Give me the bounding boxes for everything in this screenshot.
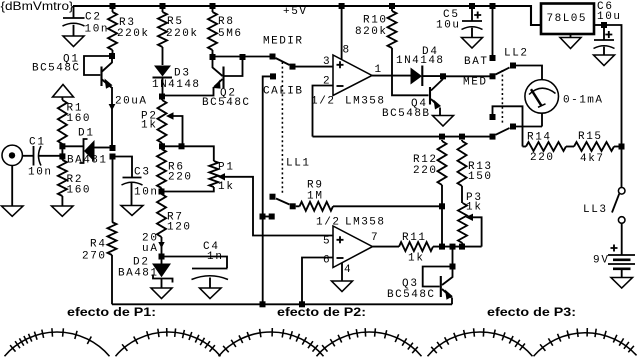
wire MED to LL2: [446, 75, 490, 77]
wire bottom return bus: [112, 303, 452, 305]
svg-text:LM358: LM358: [345, 96, 384, 108]
battery B1 9V: [608, 223, 635, 277]
battery plus mark: [611, 245, 618, 252]
ground 78L05: [560, 38, 581, 49]
svg-text:R14: R14: [527, 132, 550, 144]
wire feedback bus: [313, 136, 490, 138]
wire to LL3: [621, 150, 623, 188]
svg-text:LM358: LM358: [345, 217, 384, 229]
node out bus Q3: [450, 244, 456, 250]
node C3 branch: [110, 145, 116, 151]
potentiometer P3: [458, 203, 467, 243]
node C6: [601, 22, 607, 28]
ground pin4: [332, 281, 353, 292]
svg-text:R10: R10: [363, 15, 386, 27]
svg-text:7: 7: [371, 232, 378, 244]
U1B minus input mark: [337, 257, 344, 259]
ground C2: [63, 36, 84, 47]
svg-text:R11: R11: [402, 232, 425, 244]
resistor R15: [574, 142, 614, 151]
resistor R7: [157, 194, 166, 237]
resistor R10: [391, 6, 393, 11]
svg-text:1n: 1n: [207, 251, 222, 263]
svg-text:1k: 1k: [466, 202, 481, 214]
node D2 C4 junction: [159, 254, 165, 260]
op-amp U1A LM358: [313, 6, 411, 137]
switch LL1 pole A (MEDIR): [270, 54, 333, 70]
potentiometer P2: [161, 100, 163, 147]
resistor R11: [399, 242, 433, 251]
svg-text:BC548C: BC548C: [387, 289, 434, 301]
transistor Q1: [84, 56, 113, 89]
U1A plus input mark: [337, 61, 344, 68]
svg-text:220k: 220k: [117, 28, 148, 40]
ground R2: [52, 206, 74, 216]
svg-text:3: 3: [323, 56, 330, 68]
resistor R12 lower wire: [441, 140, 443, 244]
node rail R5: [160, 3, 166, 9]
svg-text:270: 270: [82, 251, 105, 263]
op-amp U1B LM358: [302, 226, 399, 304]
node rail LL2 contact: [490, 3, 496, 9]
svg-text:1/2: 1/2: [311, 96, 334, 108]
P1 wiper arrow: [218, 173, 226, 180]
resistor R1: [61, 97, 63, 160]
wire P2 bottom row to P1: [162, 146, 214, 161]
resistor R3: [112, 6, 114, 53]
resistor R4: [112, 160, 114, 223]
svg-text:BC548C: BC548C: [202, 97, 249, 109]
node R12 R9: [439, 203, 445, 209]
svg-text:150: 150: [468, 171, 491, 183]
svg-text:5: 5: [323, 236, 330, 248]
svg-text:LL2: LL2: [504, 48, 527, 60]
wire battery feed right edge: [607, 25, 622, 144]
svg-text:R5: R5: [167, 16, 182, 28]
node rail pin8: [339, 3, 345, 9]
node rail R10: [389, 3, 395, 9]
svg-text:4: 4: [344, 264, 351, 276]
svg-text:4k7: 4k7: [580, 153, 603, 165]
svg-text:1k: 1k: [141, 120, 156, 132]
current arrow 2: [158, 242, 164, 248]
current arrow: [109, 104, 116, 111]
node R15 battery: [619, 144, 625, 150]
diode D4: [411, 66, 441, 87]
node CALIB stub: [260, 214, 266, 220]
capacitor C6: [594, 28, 615, 55]
svg-text:BAT: BAT: [464, 56, 487, 68]
wire +5V top rail: [73, 6, 541, 25]
U1A minus input mark: [337, 85, 344, 87]
wire R6 bottom to P1 bottom: [162, 187, 214, 192]
node R4 branch: [110, 154, 116, 160]
P1 effect scale arc left: [5, 328, 110, 356]
svg-text:efecto de P1:: efecto de P1:: [67, 305, 156, 319]
svg-text:6: 6: [323, 255, 330, 267]
wire R8 node to MEDIR switch: [213, 56, 270, 58]
ground C4: [200, 288, 222, 299]
P2 wiper arrow: [166, 112, 174, 119]
node C1 / R1 / R2: [59, 153, 65, 159]
wire connector ground stem: [11, 166, 13, 206]
U1B plus input mark: [337, 236, 344, 243]
wire R10 to Q4 base: [392, 48, 429, 95]
svg-text:+5V: +5V: [283, 6, 306, 18]
svg-text:20uA: 20uA: [115, 96, 146, 108]
svg-text:LL1: LL1: [286, 158, 309, 170]
LL1 gang dotted link: [281, 62, 283, 194]
ground D2: [151, 288, 172, 299]
svg-text:{dBmVmtro}: {dBmVmtro}: [1, 0, 74, 13]
capacitor C1: [34, 146, 60, 166]
svg-text:220: 220: [530, 152, 553, 164]
wire Q1 emitter down: [111, 87, 113, 146]
svg-text:10u: 10u: [597, 11, 620, 23]
svg-text:220: 220: [413, 165, 436, 177]
C5 plus mark: [474, 12, 481, 19]
P3 effect scale arc left: [428, 328, 533, 356]
ground connector: [2, 206, 24, 216]
node R6 bottom: [159, 189, 165, 195]
LL2 gang dotted link: [501, 70, 503, 124]
resistor R14: [523, 146, 527, 148]
svg-text:10n: 10n: [85, 24, 108, 36]
svg-text:R15: R15: [578, 131, 601, 143]
ground C6: [594, 55, 615, 66]
resistor R9: [300, 202, 334, 211]
svg-text:120: 120: [167, 222, 190, 234]
resistor R8: [212, 6, 214, 54]
svg-text:160: 160: [67, 185, 90, 197]
ground C3: [121, 206, 143, 216]
svg-text:efecto de P3:: efecto de P3:: [487, 305, 576, 319]
node bus R13: [459, 134, 465, 140]
resistor R5: [162, 6, 164, 65]
svg-text:C2: C2: [85, 12, 100, 24]
svg-text:2: 2: [323, 76, 330, 88]
diode D2: [152, 260, 173, 289]
node out bus R13: [459, 244, 465, 250]
transistor Q4: [430, 79, 443, 116]
node bottom pin6: [299, 301, 305, 307]
node bus R12: [439, 134, 445, 140]
svg-text:MEDIR: MEDIR: [263, 36, 302, 48]
switch LL2 pole A: [490, 9, 543, 80]
P2 effect scale arc right: [317, 328, 422, 356]
svg-text:8: 8: [343, 45, 350, 57]
node Q2 collector / R8: [210, 54, 216, 60]
svg-text:160: 160: [67, 113, 90, 125]
svg-text:BC548B: BC548B: [382, 108, 429, 120]
P3 effect scale arc right: [534, 328, 637, 356]
svg-text:220: 220: [168, 172, 191, 184]
node Q2 base wire: [240, 54, 246, 60]
svg-text:MED: MED: [463, 77, 486, 89]
meter M1 0-1mA: [525, 80, 559, 127]
node rail R8: [210, 3, 216, 9]
svg-text:D3: D3: [174, 68, 189, 80]
svg-text:10n: 10n: [28, 167, 51, 179]
ground C5: [462, 38, 483, 49]
C6 plus mark: [605, 31, 612, 38]
wire rail node to Q2 top: [212, 53, 214, 57]
svg-text:1M: 1M: [307, 191, 322, 203]
svg-text:BA481: BA481: [118, 268, 157, 280]
node D1 branch: [59, 143, 65, 149]
capacitor C2: [63, 6, 85, 36]
node bottom CALIB: [260, 301, 266, 307]
switch LL3: [612, 188, 625, 224]
svg-text:9V: 9V: [593, 255, 608, 267]
diode D1: [65, 139, 110, 163]
node P2 wiper bottom: [179, 143, 185, 149]
resistor R2: [58, 160, 67, 196]
transistor Q3: [423, 250, 456, 305]
diode D3: [153, 66, 173, 95]
svg-text:5M6: 5M6: [218, 28, 241, 40]
input connector J1: [2, 145, 33, 165]
node out bus R12: [439, 244, 445, 250]
svg-text:820k: 820k: [355, 26, 386, 38]
svg-text:1: 1: [375, 64, 382, 76]
ground Q4: [433, 116, 454, 127]
svg-text:D1: D1: [78, 128, 93, 140]
supply arrow R1 top: [53, 85, 74, 98]
svg-text:BA481: BA481: [67, 155, 106, 167]
svg-text:C3: C3: [134, 167, 149, 179]
svg-text:R8: R8: [218, 16, 233, 28]
transistor Q2: [165, 57, 243, 96]
svg-text:78L05: 78L05: [547, 13, 586, 25]
svg-text:10u: 10u: [436, 20, 459, 32]
node Q1 collector: [109, 53, 115, 59]
ground battery: [611, 278, 633, 289]
svg-text:P1: P1: [218, 162, 233, 174]
switch LL1 pole B: [270, 194, 300, 210]
node rail R3: [110, 3, 116, 9]
resistor R6: [157, 149, 166, 188]
svg-text:BC548C: BC548C: [32, 63, 79, 75]
capacitor C5: [462, 6, 483, 38]
node rail C5: [469, 3, 475, 9]
svg-text:C1: C1: [29, 137, 44, 149]
resistor R13: [461, 140, 463, 203]
svg-text:1/2: 1/2: [316, 217, 339, 229]
node D3 P2 junction: [159, 94, 165, 100]
svg-text:1k: 1k: [218, 181, 233, 193]
P1 effect scale arc right: [116, 328, 221, 356]
svg-text:efecto de P2:: efecto de P2:: [277, 305, 366, 319]
svg-text:uA: uA: [142, 243, 157, 255]
regulator U2 78L05: [541, 4, 604, 38]
P3 wiper arrow: [466, 214, 474, 221]
node D4 Q4: [440, 73, 446, 79]
svg-text:10n: 10n: [134, 187, 157, 199]
switch LL2 pole B: [490, 106, 543, 146]
svg-text:220k: 220k: [166, 28, 197, 40]
CALIB contact: [270, 73, 276, 79]
capacitor C4: [165, 257, 229, 289]
node P2 bottom: [159, 143, 165, 149]
svg-text:0-1mA: 0-1mA: [563, 95, 602, 107]
svg-text:R4: R4: [90, 239, 105, 251]
potentiometer P1: [209, 161, 218, 187]
P2 effect scale arc left: [219, 328, 324, 356]
svg-text:1k: 1k: [408, 253, 423, 265]
wire CALIB line: [263, 76, 270, 304]
capacitor C3: [116, 157, 143, 206]
svg-text:LL3: LL3: [583, 204, 606, 216]
